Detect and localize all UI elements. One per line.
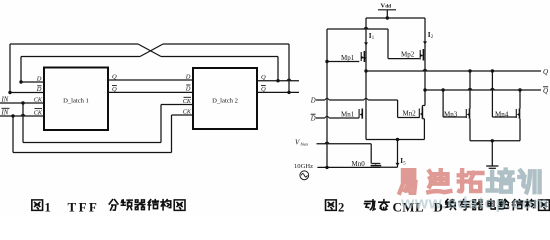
svg-text:bias: bias <box>301 142 309 147</box>
svg-text:www.edatop.com: www.edatop.com <box>400 194 549 213</box>
svg-text:V: V <box>295 138 300 146</box>
svg-text:Q: Q <box>543 87 548 95</box>
svg-text:D: D <box>185 86 191 93</box>
svg-text:Q: Q <box>543 68 548 76</box>
svg-text:2: 2 <box>338 200 344 214</box>
svg-text:D: D <box>310 115 316 122</box>
svg-text:D: D <box>36 75 42 82</box>
svg-text:CK: CK <box>183 98 192 105</box>
svg-text:5: 5 <box>403 162 406 167</box>
svg-text:Q: Q <box>112 86 117 93</box>
svg-text:Mp1: Mp1 <box>341 54 355 62</box>
svg-text:2: 2 <box>431 35 434 40</box>
svg-text:IN: IN <box>1 96 9 103</box>
svg-text:1: 1 <box>372 36 375 41</box>
svg-text:Mn4: Mn4 <box>495 110 509 118</box>
svg-text:CK: CK <box>34 97 43 104</box>
svg-text:D_latch 2: D_latch 2 <box>212 98 238 105</box>
svg-text:Q: Q <box>261 74 266 81</box>
svg-text:CK: CK <box>34 109 43 116</box>
svg-text:D: D <box>310 97 316 104</box>
svg-text:D_latch 1: D_latch 1 <box>63 98 89 105</box>
svg-text:Mp2: Mp2 <box>401 51 415 59</box>
svg-text:D: D <box>36 86 42 93</box>
svg-text:Mn3: Mn3 <box>444 110 458 118</box>
svg-text:Q: Q <box>261 86 266 93</box>
svg-text:Mn1: Mn1 <box>341 110 355 118</box>
svg-text:Mn2: Mn2 <box>403 109 417 117</box>
svg-text:10GHz: 10GHz <box>294 163 313 170</box>
svg-text:IN: IN <box>1 109 9 116</box>
svg-text:CK: CK <box>183 109 192 116</box>
svg-text:1: 1 <box>45 200 51 214</box>
svg-text:Q: Q <box>112 74 117 81</box>
svg-text:dd: dd <box>385 4 391 10</box>
svg-text:D: D <box>185 73 191 80</box>
svg-text:TFF: TFF <box>68 199 100 214</box>
